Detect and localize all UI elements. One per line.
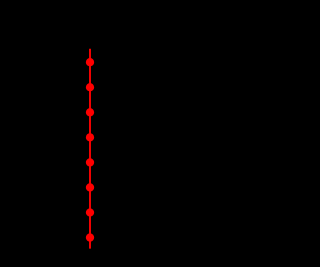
- wire: red vertical data line: [89, 49, 91, 249]
- node 2: marker dot: [86, 83, 94, 91]
- node 5: marker dot: [86, 158, 94, 166]
- node 3: marker dot: [86, 108, 94, 116]
- node 1: marker dot: [86, 58, 94, 66]
- node 6: marker dot: [86, 183, 94, 191]
- node 4: marker dot: [86, 133, 94, 141]
- node 8: marker dot: [86, 233, 94, 241]
- node 7: marker dot: [86, 208, 94, 216]
